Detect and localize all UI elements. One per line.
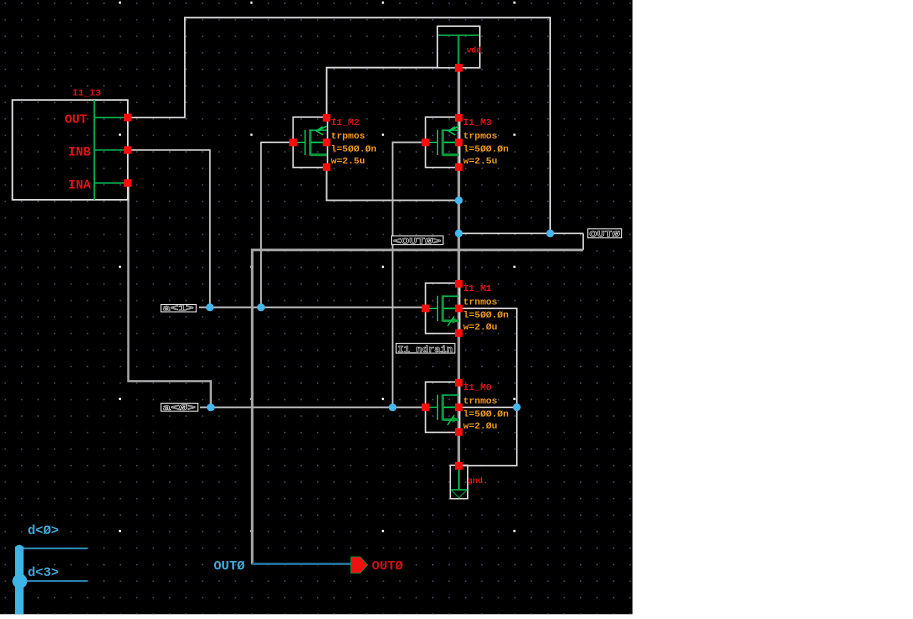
svg-text:OUT: OUT xyxy=(65,113,88,127)
wire M2 source to vdd xyxy=(327,68,438,118)
wire net OUT from I1_I3 to OUT0 rail xyxy=(131,18,550,234)
svg-text:I1_M0: I1_M0 xyxy=(463,382,492,393)
svg-text:OUTØ: OUTØ xyxy=(214,559,245,574)
svg-text:OUTØ: OUTØ xyxy=(589,230,620,240)
output pin OUT0 (arrow) xyxy=(351,557,368,573)
wire nmos bulk rail xyxy=(460,308,517,465)
svg-text:l=5ØØ.Øn: l=5ØØ.Øn xyxy=(331,144,377,155)
net label a<0> xyxy=(161,403,198,413)
wire main vertical rail vdd to gnd xyxy=(457,68,460,466)
grid marker dots xyxy=(119,2,516,533)
svg-text:OUTØ: OUTØ xyxy=(372,558,403,573)
svg-text:d<3>: d<3> xyxy=(28,565,59,580)
wire M0 bulk to rail xyxy=(459,406,517,408)
net label a<1> xyxy=(161,305,196,314)
wire net a1 horizontal xyxy=(199,306,426,308)
wire net a0 from INA pin xyxy=(128,186,211,407)
svg-text:I1_M3: I1_M3 xyxy=(463,117,492,128)
wire net OUT0 to output pin xyxy=(252,563,351,565)
bus bar d xyxy=(12,545,27,615)
svg-text:I1_ndrain: I1_ndrain xyxy=(398,345,453,355)
svg-text:trnmos: trnmos xyxy=(463,395,498,406)
power symbol vdd xyxy=(437,26,481,72)
svg-text:d<Ø>: d<Ø> xyxy=(28,523,59,538)
net label <OUT0> xyxy=(392,236,444,247)
svg-text:vdd: vdd xyxy=(467,47,482,56)
svg-text:I1_M1: I1_M1 xyxy=(463,283,492,294)
svg-text:a<1>: a<1> xyxy=(163,305,194,314)
transistor I1_M1 (nmos) xyxy=(422,280,509,337)
wire net a1 from INB pin xyxy=(131,150,210,307)
svg-text:w=2.Øu: w=2.Øu xyxy=(463,421,498,432)
wire net OUT0 right stub xyxy=(582,233,584,250)
instance I1_I3 (2-input cell symbol) xyxy=(12,88,131,200)
svg-text:INA: INA xyxy=(68,179,91,193)
svg-text:gnd.: gnd. xyxy=(467,476,487,486)
wire M2 drain to OUT0 rail xyxy=(327,167,459,200)
transistor I1_M0 (nmos) xyxy=(422,379,509,436)
net label I1_ndrain xyxy=(396,343,455,355)
junction dots xyxy=(206,197,554,412)
wire net OUT0 return path xyxy=(252,250,583,564)
svg-text:I1_I3: I1_I3 xyxy=(73,88,102,99)
svg-text:w=2.5u: w=2.5u xyxy=(331,156,366,167)
transistor I1_M2 (pmos) xyxy=(289,114,377,171)
bus stub d<0> xyxy=(24,523,88,548)
svg-text:w=2.5u: w=2.5u xyxy=(463,156,498,167)
svg-text:a<Ø>: a<Ø> xyxy=(163,404,196,413)
svg-text:w=2.Øu: w=2.Øu xyxy=(463,322,498,333)
wire net a0 horizontal xyxy=(200,406,426,408)
transistor I1_M3 (pmos) xyxy=(422,114,509,171)
svg-text:INB: INB xyxy=(68,146,91,160)
svg-text:trnmos: trnmos xyxy=(463,297,498,308)
bus stub d<3> xyxy=(27,565,88,581)
net label OUT0 right xyxy=(588,229,622,240)
wire net OUT0 horizontal xyxy=(459,232,583,234)
wire M3 gate to a0 xyxy=(393,142,422,407)
svg-text:<OUTØ>: <OUTØ> xyxy=(393,236,441,246)
svg-text:l=5ØØ.Øn: l=5ØØ.Øn xyxy=(463,144,509,155)
ground symbol gnd xyxy=(450,462,488,499)
wire M2 gate to a1 xyxy=(261,142,292,307)
svg-text:l=5ØØ.Øn: l=5ØØ.Øn xyxy=(463,409,509,420)
svg-text:I1_M2: I1_M2 xyxy=(331,117,360,128)
svg-text:l=5ØØ.Øn: l=5ØØ.Øn xyxy=(463,310,509,321)
svg-text:trpmos: trpmos xyxy=(331,131,366,142)
svg-text:trpmos: trpmos xyxy=(463,131,498,142)
